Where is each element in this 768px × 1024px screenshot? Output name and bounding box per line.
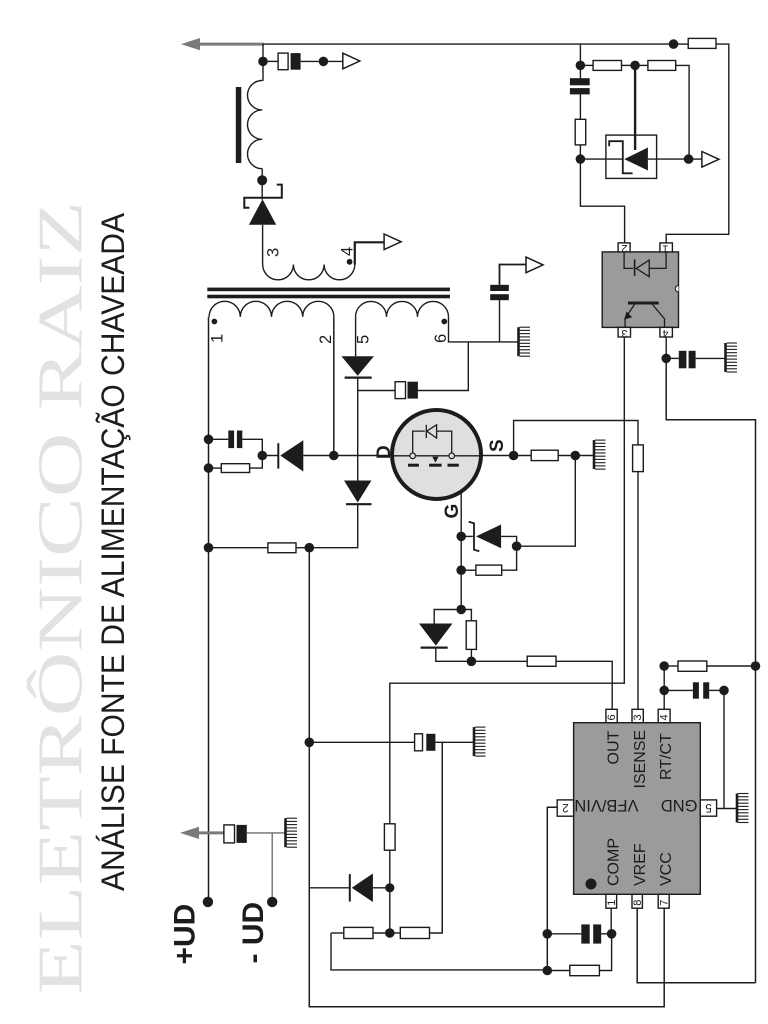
wire pin6 to ground row	[449, 317, 518, 342]
wire top line divider drop	[579, 44, 581, 65]
node gate 1	[456, 532, 466, 542]
ground at C10	[286, 818, 298, 847]
node VFB cap left	[543, 929, 553, 939]
wire C6 top to arrow	[500, 265, 527, 285]
wire C6 bottom	[499, 300, 501, 342]
svg-text:1: 1	[662, 242, 668, 254]
ground at C7	[474, 727, 486, 756]
wire node to R16	[664, 665, 678, 667]
capacitor C9	[679, 351, 696, 369]
resistor R15	[575, 119, 586, 145]
wire cap row	[309, 741, 414, 743]
open arrow at TL431	[702, 152, 719, 168]
wire C1 to node	[301, 60, 324, 62]
IC label VCC	[658, 852, 675, 886]
diode D6 (points down)	[341, 356, 374, 377]
wire R15 to node	[579, 145, 581, 159]
opto pin 1 box	[660, 242, 673, 254]
svg-text:6: 6	[606, 714, 618, 720]
resistor R16	[678, 661, 707, 671]
wire node to ground	[575, 455, 593, 457]
snubber wire to winding6 row	[418, 342, 468, 391]
TL431 symbol	[609, 141, 648, 173]
svg-text:4: 4	[662, 327, 668, 339]
wire R6 to node	[470, 649, 472, 661]
ground at winding 6	[519, 327, 531, 356]
capacitor C3	[228, 431, 242, 449]
node divider mid	[630, 61, 640, 71]
svg-text:7: 7	[659, 900, 671, 906]
svg-text:2: 2	[317, 335, 335, 344]
wire join to sense node	[517, 456, 576, 547]
diode D10 (points left)	[310, 874, 390, 903]
wire IC pin4 up	[663, 666, 665, 709]
wire R11 to node	[296, 547, 309, 549]
wire left loop down	[331, 933, 547, 970]
wire VFB rail segment	[546, 934, 548, 971]
wire R14 down to TL431 out node	[676, 65, 689, 159]
wire node to C9	[666, 357, 679, 359]
node rail bottom	[204, 463, 214, 473]
IC label GND	[661, 796, 698, 814]
wire R9 to node	[373, 932, 390, 934]
node RT cap	[659, 686, 669, 696]
capacitor C10 (polarized)	[224, 825, 247, 843]
capacitor C12	[581, 924, 601, 943]
transformer primary winding 1-2	[209, 301, 334, 317]
wire node to C11	[664, 689, 693, 691]
wire C7 to ground	[435, 741, 473, 743]
node gate 3	[456, 605, 466, 615]
wire R13 to node	[622, 64, 636, 66]
svg-text:+UD: +UD	[169, 904, 202, 965]
MOSFET terminal circles	[410, 453, 455, 459]
wire D7 to lower row	[309, 504, 358, 548]
resistor R5	[476, 565, 502, 575]
wire R4 to IC pin 3	[637, 472, 639, 710]
label 5	[355, 335, 373, 344]
polarity dot pin 1	[212, 319, 218, 325]
svg-text:G: G	[442, 504, 463, 519]
wire C12 to node	[601, 933, 611, 935]
resistor R8	[384, 824, 395, 850]
node left rail mid	[204, 543, 214, 553]
polarity dot pin 4	[347, 259, 353, 265]
svg-text:5: 5	[355, 335, 373, 344]
resistor R14	[648, 61, 676, 71]
wire C8 to R15	[579, 94, 581, 119]
zener D8 (points left)	[461, 522, 516, 551]
wire gate node to R5	[461, 569, 476, 571]
wire node to R12	[674, 43, 689, 45]
resistor R17	[570, 965, 600, 975]
node after C1	[319, 57, 329, 67]
node below L1	[257, 175, 267, 185]
schottky diode D5 (cathode up)	[244, 185, 281, 225]
node COMP	[607, 929, 617, 939]
node RT resistor	[659, 661, 669, 671]
IC label ISENSE	[632, 730, 649, 789]
label 6	[432, 334, 450, 343]
wire divider mid to TL431 ref	[634, 65, 636, 150]
TL431 U2 box	[606, 135, 657, 178]
wire C10 to ground	[247, 832, 285, 834]
svg-text:D: D	[374, 445, 395, 459]
wire R17 to node	[547, 970, 570, 972]
node rail top	[204, 435, 214, 445]
svg-text:5: 5	[705, 801, 711, 813]
IC pin 1 box	[606, 894, 618, 908]
wire R2 to node	[250, 456, 263, 469]
transformer core bars	[207, 288, 450, 299]
capacitor C8	[570, 78, 590, 94]
wire R3 to node	[558, 455, 575, 457]
wire rail to resistor R2	[209, 467, 222, 469]
wire R12 to opto pin1	[666, 44, 729, 243]
IC pin 5 box	[700, 800, 716, 816]
snubber capacitor C2 (polarized)	[395, 382, 418, 399]
ground at source	[594, 440, 606, 469]
IC pin 7 box	[658, 894, 670, 908]
label +UD	[169, 904, 202, 965]
wire clamp cap branch	[242, 439, 262, 455]
ground at opto	[726, 343, 738, 372]
wire node to output cap row	[262, 44, 264, 61]
wire C3 to rail	[209, 438, 229, 440]
IC label OUT	[606, 731, 623, 765]
wire IC pin5 to ground	[717, 808, 737, 810]
IC pin 2 box	[557, 800, 573, 816]
svg-text:S: S	[487, 439, 508, 452]
wire node to diode D9	[434, 610, 461, 624]
wire node to C8	[579, 65, 581, 78]
IC label VFB/VIN	[574, 796, 638, 814]
svg-text:VFB/VIN: VFB/VIN	[574, 796, 638, 814]
svg-text:2: 2	[562, 801, 568, 813]
wire C9 to ground	[696, 357, 725, 359]
svg-text:4: 4	[659, 714, 671, 720]
open arrow at output cap branch	[343, 53, 360, 69]
svg-text:RT/CT: RT/CT	[658, 733, 675, 780]
output arrow (gray, points left)	[181, 38, 264, 50]
snubber wire to cap	[358, 390, 395, 392]
label - UD	[237, 902, 270, 964]
wire TL431 cathode down to opto	[580, 159, 624, 243]
watermark ELETRONICO RAIZ	[25, 201, 96, 995]
wire node to resistor R6	[461, 610, 471, 621]
svg-text:3: 3	[621, 327, 627, 339]
wire node to R7	[471, 660, 527, 662]
svg-text:ISENSE: ISENSE	[632, 730, 649, 789]
node cap branch	[305, 738, 315, 748]
resistor R4 (ISENSE)	[633, 445, 644, 472]
node at output cap junction	[258, 57, 268, 67]
node VFB bottom	[543, 966, 553, 976]
wire sense path	[514, 421, 638, 456]
wire opto pin4 to VREF rail	[666, 358, 755, 982]
wire cap row drop	[441, 742, 443, 933]
svg-text:ELETRÔNICO RAIZ: ELETRÔNICO RAIZ	[25, 201, 96, 995]
wire pin2 down to D row	[333, 317, 335, 456]
resistor R2	[221, 464, 249, 473]
node source	[509, 451, 519, 461]
label 2	[317, 335, 335, 344]
wire VCC rail down	[309, 548, 664, 1007]
svg-text:ANÁLISE FONTE DE ALIMENTAÇÃO C: ANÁLISE FONTE DE ALIMENTAÇÃO CHAVEADA	[95, 212, 131, 891]
svg-text:GND: GND	[661, 796, 698, 814]
wire top horizontal to node	[263, 43, 674, 45]
wire R10 up to cap row	[430, 742, 443, 933]
title ANALISE FONTE DE ALIMENTACAO CHAVEADA	[95, 212, 131, 891]
MOSFET Q1 body	[392, 410, 481, 499]
node top line	[669, 39, 679, 49]
node gate drive	[467, 657, 477, 667]
wire source to node	[481, 455, 514, 457]
svg-text:3: 3	[632, 714, 644, 720]
opto transistor	[624, 303, 664, 327]
IC label COMP	[606, 838, 623, 886]
label 1	[209, 334, 227, 343]
wire IC pin8 to VREF rail	[637, 909, 755, 983]
svg-text:- UD: - UD	[237, 902, 270, 964]
wire R5 to node	[502, 546, 517, 570]
optocoupler U3 body	[602, 252, 678, 328]
MOSFET substrate arrow	[432, 457, 438, 463]
wire D9 to out row	[436, 648, 472, 662]
capacitor C7 (polarized)	[415, 734, 436, 751]
IC pin1 marker dot	[586, 879, 597, 890]
wire D6 to snubber junction and diode D7	[357, 378, 359, 481]
+UD arrow (gray)	[180, 827, 224, 839]
resistor R3	[531, 450, 558, 460]
capacitor C1 (polarized)	[278, 53, 301, 70]
wire node to R10	[390, 932, 401, 934]
resistor R6	[466, 621, 476, 650]
label S	[487, 439, 508, 452]
svg-text:COMP: COMP	[606, 838, 623, 886]
wire gate down	[460, 492, 462, 610]
diode D1 (points left)	[278, 440, 303, 471]
wire node to R13	[580, 64, 593, 66]
node diode D10 anode	[385, 883, 394, 892]
-UD terminal dot	[267, 897, 277, 907]
wire rail corner to R9	[331, 932, 344, 934]
wire node to inductor L1	[262, 61, 264, 81]
wire pin5 down to diode D6	[355, 317, 357, 356]
opto pin 2 box	[618, 242, 630, 254]
wire D5 anode to winding 3	[262, 225, 264, 265]
IC pin 8 box	[632, 894, 644, 908]
inductor L1 core bar	[236, 87, 242, 163]
node opto cap	[661, 354, 671, 364]
resistor R12	[688, 38, 716, 48]
diode D9 (points down)	[419, 624, 453, 648]
node zener-resistor join	[512, 541, 522, 551]
wire TL431 to node	[648, 158, 689, 160]
wire left rail pin1 down to +UD	[208, 317, 210, 898]
+UD terminal dot	[203, 897, 213, 907]
wire IC pin2 left and down	[547, 807, 557, 934]
capacitor C11	[693, 682, 709, 698]
resistor R13	[593, 61, 621, 71]
svg-text:1: 1	[606, 900, 618, 906]
wire node down to GND row	[723, 690, 725, 808]
label G	[442, 504, 463, 519]
node resistor row	[385, 928, 395, 938]
node gate 2	[456, 565, 466, 575]
node clamp left	[258, 451, 268, 461]
IC U1 box	[574, 723, 701, 895]
wire node to R14	[635, 64, 648, 66]
svg-text:VCC: VCC	[658, 852, 675, 886]
MOSFET body diode	[413, 425, 452, 453]
node D row pin2	[329, 451, 339, 461]
diode D7 (points down)	[344, 481, 372, 505]
IC label VREF	[632, 843, 649, 886]
node mid rail	[305, 543, 315, 553]
wire node to arrow	[689, 158, 702, 160]
wire COMP node to R17	[599, 934, 611, 971]
node VREF rail	[751, 661, 761, 671]
wire node to R3	[514, 455, 532, 457]
label 3	[265, 248, 283, 257]
wire R7 to IC pin 6	[556, 661, 612, 709]
ground at IC pin 5	[737, 794, 749, 823]
wire node into TL431	[580, 158, 622, 160]
open arrow at winding 4	[384, 234, 401, 250]
svg-text:1: 1	[209, 334, 227, 343]
node TL431 cathode	[576, 154, 586, 164]
transformer winding 5-6	[356, 301, 449, 317]
wire C11 to node	[709, 689, 724, 691]
node divider top	[576, 61, 586, 71]
wire D1 to node pin2	[303, 455, 334, 457]
label 4	[339, 247, 357, 256]
wire node down	[389, 888, 391, 933]
node TL431 output	[684, 154, 694, 164]
IC pin 6 box	[606, 709, 618, 722]
wire pin 4 to arrow	[355, 242, 384, 264]
optocoupler notch	[675, 286, 678, 292]
wire node to C12	[547, 933, 581, 935]
MOSFET gate bars	[408, 464, 459, 467]
wire IC pin1 down	[610, 908, 612, 934]
wire L1 to node	[261, 169, 263, 181]
svg-text:3: 3	[265, 248, 283, 257]
resistor R9	[344, 927, 373, 938]
svg-text:8: 8	[632, 900, 644, 906]
capacitor C6	[490, 285, 509, 300]
wire node to arrow	[323, 60, 342, 62]
polarity dot pin 6	[441, 319, 447, 325]
open arrow at winding 6 branch	[526, 257, 543, 273]
inductor L1 winding	[248, 81, 263, 169]
wire rail to R11	[209, 547, 268, 549]
svg-text:OUT: OUT	[606, 731, 623, 765]
MOSFET internal drain-source line	[392, 455, 481, 457]
opto pin 4 box	[660, 327, 673, 339]
wire opto pin4 down	[665, 337, 667, 356]
opto LED	[624, 252, 666, 277]
IC pin 3 box	[632, 709, 644, 722]
wire node to diode D1	[262, 455, 278, 457]
node C11 right	[719, 686, 729, 696]
opto pin 3 box	[618, 327, 630, 339]
wire opto emitter to feedback rail	[390, 337, 625, 824]
transformer secondary winding 3-4	[263, 265, 355, 280]
svg-text:VREF: VREF	[632, 843, 649, 886]
resistor R7	[527, 656, 556, 666]
wire to capacitor C1	[263, 60, 278, 62]
IC label RT/CT	[658, 733, 675, 780]
wire -UD branch	[271, 833, 273, 898]
node sense	[571, 451, 581, 461]
wire R16 to VREF rail	[707, 665, 756, 667]
wire R8 down	[389, 850, 391, 888]
svg-text:6: 6	[432, 334, 450, 343]
resistor R11	[268, 543, 296, 553]
label D	[374, 445, 395, 459]
wire node to zener D5	[261, 180, 263, 199]
wire node to MOSFET drain	[334, 455, 392, 457]
resistor R10	[400, 927, 429, 938]
IC pin 4 box	[658, 709, 670, 722]
